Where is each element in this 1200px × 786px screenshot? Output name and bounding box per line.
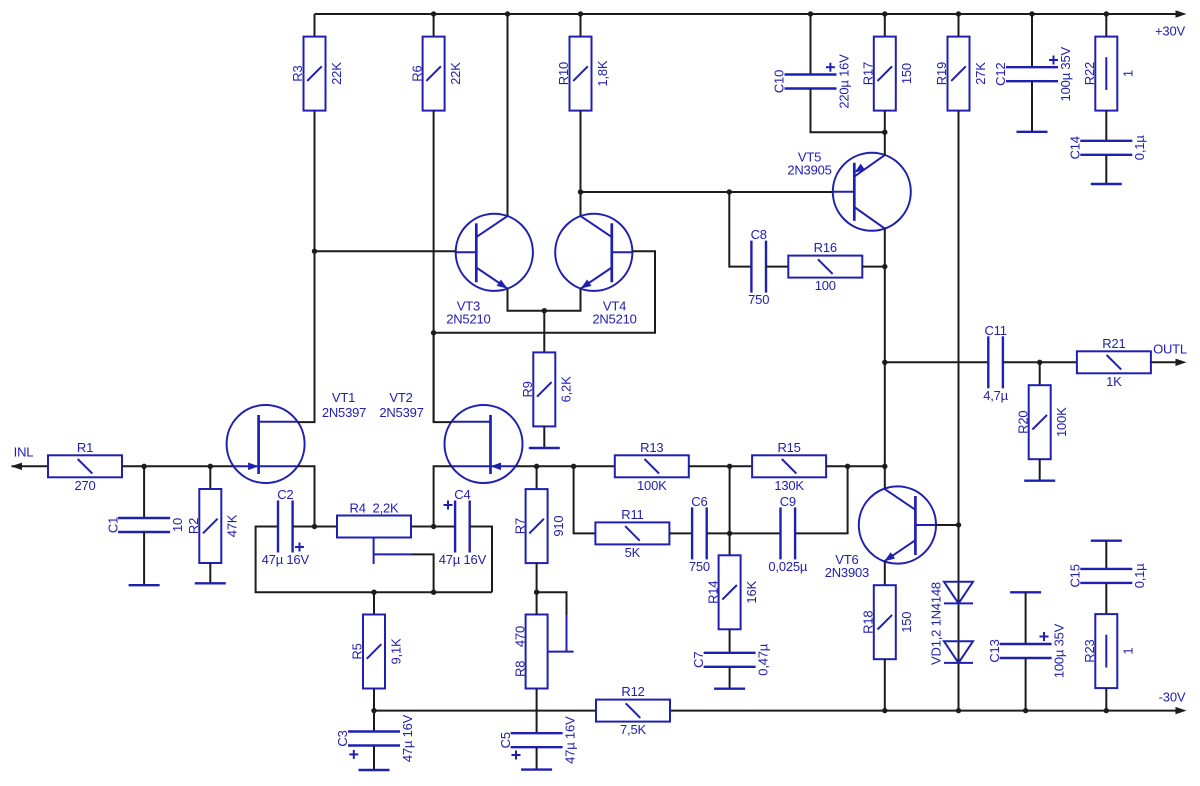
svg-text:R3: R3 — [290, 65, 305, 81]
diode VD1 1N4148 — [944, 582, 973, 604]
wire emitter bus VT3-VT4 — [508, 289, 581, 311]
svg-text:2N3903: 2N3903 — [825, 565, 869, 580]
junction R16 — [882, 264, 887, 269]
resistor R1 270 — [48, 440, 122, 493]
junction emitters / R9 — [542, 308, 547, 313]
terminator bar under C7 — [714, 688, 745, 690]
svg-text:C11: C11 — [984, 323, 1006, 338]
resistor R18 150 — [861, 585, 915, 659]
svg-text:0,025µ: 0,025µ — [768, 559, 808, 574]
junction rail/R22 — [1104, 11, 1109, 16]
wire VT1 drain to R3/VT3-base — [298, 111, 315, 422]
svg-text:R4 2,2K: R4 2,2K — [350, 501, 400, 516]
resistor R10 1,8K — [556, 37, 610, 111]
svg-text:R13: R13 — [640, 440, 663, 455]
junction rail/C12 — [1029, 11, 1034, 16]
svg-text:R15: R15 — [777, 440, 800, 455]
wire VT6 emitter to R18 — [884, 562, 886, 586]
wire C8 to R16 — [766, 266, 788, 268]
svg-text:C2: C2 — [277, 487, 293, 502]
wire C2 left loop and bias bottom wire — [256, 527, 492, 593]
wire C6 to C9 — [707, 532, 780, 534]
wire R8 to C5 — [536, 688, 538, 733]
svg-text:R2: R2 — [186, 518, 201, 534]
svg-text:2N5210: 2N5210 — [446, 312, 490, 327]
resistor R11 5K — [595, 507, 669, 560]
wire R4 tap down — [412, 554, 434, 592]
label VD1,2 1N4148 — [929, 582, 944, 665]
wire rail to C3 — [373, 711, 375, 732]
svg-text:C9: C9 — [780, 494, 796, 509]
junction VT2 source node — [431, 524, 436, 529]
svg-text:R5: R5 — [350, 643, 365, 659]
capacitor C14 0,1µ — [1068, 135, 1148, 160]
wire VT4 base loop — [434, 251, 655, 333]
svg-text:7,5K: 7,5K — [620, 722, 646, 737]
resistor R21 1K — [1077, 336, 1151, 389]
wire C9 up to R15 right — [796, 466, 848, 533]
junction rail/C13 — [1023, 708, 1028, 713]
svg-text:R12: R12 — [621, 684, 644, 699]
svg-text:R6: R6 — [409, 65, 424, 81]
wire R1 to VT1 gate — [122, 465, 233, 467]
wire to R9 — [543, 311, 545, 353]
junction C9 riser — [845, 464, 850, 469]
node C1 junction — [141, 464, 146, 469]
svg-text:C10: C10 — [772, 70, 787, 93]
terminator bar under R20 — [1024, 480, 1055, 482]
wire R23 to -30V rail — [1105, 688, 1107, 711]
wire rail to R10 — [580, 14, 582, 37]
svg-text:270: 270 — [74, 478, 95, 493]
wire C2 to R4 — [293, 526, 337, 528]
resistor R8 470 — [512, 615, 547, 689]
resistor R20 100K — [1015, 385, 1069, 459]
resistor R4 2,2K — [337, 501, 411, 538]
wire VT5 collector to VT6 collector — [884, 228, 886, 488]
resistor R5 9,1K — [350, 615, 404, 689]
capacitor C2 47µ 16V — [262, 487, 310, 567]
capacitor C12 100µ 35V — [993, 47, 1073, 102]
svg-text:C12: C12 — [993, 63, 1008, 86]
svg-text:1: 1 — [1121, 648, 1136, 655]
net label -30V — [1159, 690, 1186, 705]
svg-text:0,1µ: 0,1µ — [1132, 563, 1147, 588]
resistor R6 22K — [409, 37, 463, 111]
wire R15 to VT6 collector node — [826, 465, 885, 467]
junction R5 — [371, 590, 376, 595]
svg-text:VT1: VT1 — [332, 390, 355, 405]
svg-text:C13: C13 — [987, 639, 1002, 662]
wire VT1 source down — [298, 466, 315, 526]
svg-text:R22: R22 — [1082, 62, 1097, 85]
wire VT6 base — [936, 524, 959, 526]
wire C12 to terminator — [1031, 82, 1033, 132]
terminator bar above C13 — [1010, 591, 1041, 593]
transistor VT5 2N3905 — [787, 150, 910, 231]
wire R9 to terminator — [543, 426, 545, 448]
svg-text:R21: R21 — [1102, 336, 1125, 351]
svg-text:2N3905: 2N3905 — [787, 163, 831, 178]
wire VT3 base — [315, 250, 456, 252]
resistor R19 27K — [934, 37, 988, 111]
svg-text:220µ 16V: 220µ 16V — [836, 54, 851, 109]
resistor R22 1 — [1082, 37, 1136, 111]
svg-text:5K: 5K — [625, 545, 641, 560]
junction VT1 source node — [312, 524, 317, 529]
wire C14 to terminator — [1105, 155, 1107, 184]
wire R5 to -30V rail — [373, 689, 375, 711]
junction R7 top — [534, 464, 539, 469]
transistor VT6 2N3903 — [825, 486, 936, 580]
wire VT2 drain to R6 line — [434, 333, 452, 422]
junction R11 branch — [571, 464, 576, 469]
node R2 junction — [208, 464, 213, 469]
junction rail/R19 — [956, 11, 961, 16]
svg-text:R20: R20 — [1015, 411, 1030, 434]
capacitor C7 0,47µ — [691, 643, 771, 676]
wire down to R14 — [729, 466, 731, 555]
svg-text:INL: INL — [14, 445, 34, 460]
resistor R15 130K — [752, 440, 826, 493]
resistor R2 47K — [186, 489, 240, 563]
resistor R17 150 — [861, 37, 915, 111]
svg-text:6,2K: 6,2K — [559, 376, 574, 402]
svg-text:R10: R10 — [556, 62, 571, 85]
svg-text:9,1K: 9,1K — [388, 638, 403, 664]
svg-text:27K: 27K — [973, 62, 988, 85]
svg-text:47µ 16V: 47µ 16V — [439, 552, 487, 567]
wire R18 to -30V rail — [884, 658, 886, 710]
svg-text:R7: R7 — [512, 518, 527, 534]
capacitor C5 47µ 16V — [498, 716, 578, 764]
svg-text:150: 150 — [899, 63, 914, 84]
wire rail to R19 — [958, 14, 960, 37]
capacitor C9 0,025µ — [768, 494, 808, 574]
junction R3 line / VT3 base — [312, 249, 317, 254]
trimmer tap of R4 — [374, 538, 412, 565]
svg-text:C7: C7 — [691, 652, 706, 668]
svg-text:C1: C1 — [105, 517, 120, 533]
svg-text:C5: C5 — [498, 732, 513, 748]
junction R13/R15/R14 — [727, 464, 732, 469]
svg-text:R8 470: R8 470 — [512, 626, 527, 677]
wire R13 to R15 — [689, 465, 752, 467]
resistor R13 100K — [615, 440, 689, 493]
wire R20 to terminator — [1039, 459, 1041, 481]
transistor VT3 2N5210 — [446, 214, 533, 327]
svg-text:R1: R1 — [77, 440, 93, 455]
net label INL — [14, 445, 34, 460]
junction R7/R8/tap — [534, 590, 539, 595]
svg-text:10: 10 — [170, 518, 185, 532]
junction VT4 collector / VT5 base wire — [578, 189, 583, 194]
wire rail to C12 — [1031, 14, 1033, 67]
wire C10 to VT5 emitter node — [811, 89, 885, 133]
capacitor C8 750 — [748, 227, 769, 307]
resistor R14 16K — [705, 555, 759, 629]
svg-text:R9: R9 — [520, 381, 535, 397]
junction rail/R10 — [578, 11, 583, 16]
wire C7 to terminator — [729, 667, 731, 689]
svg-text:0,1µ: 0,1µ — [1132, 135, 1147, 160]
wire rail to R3 — [314, 14, 316, 37]
capacitor C13 100µ 35V — [987, 623, 1067, 678]
svg-text:R16: R16 — [814, 240, 837, 255]
transistor VT1 2N5397 JFET — [227, 405, 305, 483]
svg-text:C6: C6 — [691, 494, 707, 509]
wire R7 to R8 — [536, 562, 538, 592]
junction rail/R6 — [431, 11, 436, 16]
svg-text:100µ 35V: 100µ 35V — [1058, 47, 1073, 102]
svg-text:2N5397: 2N5397 — [322, 405, 366, 420]
svg-text:100: 100 — [815, 278, 836, 293]
wire R4 to C4 — [412, 526, 456, 528]
svg-text:4,7µ: 4,7µ — [983, 388, 1008, 403]
wire C3 to terminator — [373, 746, 375, 770]
junction VT4 base / R6 line — [431, 330, 436, 335]
label VT1 — [322, 390, 366, 420]
wire C1 to terminator — [143, 532, 145, 585]
junction rail/C10 — [808, 11, 813, 16]
wire C13 to -30V rail — [1025, 658, 1027, 710]
wire rail to R6 — [433, 14, 435, 37]
terminator bar under R9 — [529, 447, 560, 449]
junction rail/R18 — [882, 708, 887, 713]
svg-text:47K: 47K — [225, 514, 240, 537]
junction C10/R17 — [882, 130, 887, 135]
svg-text:C4: C4 — [454, 487, 470, 502]
svg-text:150: 150 — [899, 612, 914, 633]
svg-text:C15: C15 — [1068, 564, 1083, 587]
svg-text:R19: R19 — [934, 62, 949, 85]
svg-text:R11: R11 — [621, 507, 643, 522]
wire into R8 — [536, 592, 538, 614]
wire down to C8 — [729, 192, 751, 267]
svg-text:47µ 16V: 47µ 16V — [562, 716, 577, 764]
svg-text:C3: C3 — [335, 730, 350, 746]
junction rail/VT3 collector — [505, 11, 510, 16]
junction C8 branch — [727, 189, 732, 194]
capacitor C3 47µ 16V — [335, 714, 415, 762]
wire R17 to VT5 emitter — [884, 111, 886, 156]
svg-text:910: 910 — [551, 516, 566, 537]
wire rail to C10 — [810, 14, 812, 75]
junction R4 tap / C4 loop — [431, 590, 436, 595]
junction output tap — [882, 360, 887, 365]
wire R10 to VT4 collector — [580, 111, 582, 216]
svg-text:22K: 22K — [329, 62, 344, 85]
terminator bar under C5 — [521, 768, 552, 770]
capacitor C10 220µ 16V — [772, 54, 852, 109]
terminator bar under C1 — [129, 584, 160, 586]
wire R2 to terminator — [209, 563, 211, 583]
svg-text:-30V: -30V — [1159, 690, 1186, 705]
wire C11 to R21 — [1003, 361, 1077, 363]
svg-text:1,8K: 1,8K — [595, 60, 610, 86]
wire to R8 tap — [537, 592, 567, 615]
terminator bar under C3 — [359, 769, 390, 771]
junction R20 — [1037, 360, 1042, 365]
terminator bar under C14 — [1091, 183, 1122, 185]
svg-text:100K: 100K — [637, 478, 667, 493]
svg-text:2N5210: 2N5210 — [592, 312, 636, 327]
svg-text:VT2: VT2 — [389, 390, 412, 405]
svg-text:1: 1 — [1121, 70, 1136, 77]
svg-text:130K: 130K — [774, 478, 804, 493]
wire C15 to R23 — [1105, 583, 1107, 614]
wire to C1 — [143, 466, 145, 518]
wire to R2 — [209, 466, 211, 489]
svg-text:1K: 1K — [1106, 374, 1122, 389]
wire terminator to C15 — [1105, 541, 1107, 569]
junction rail/R23 — [1104, 708, 1109, 713]
junction rail/R17 — [882, 11, 887, 16]
resistor R16 100 — [788, 240, 862, 293]
svg-text:47µ 16V: 47µ 16V — [262, 552, 310, 567]
resistor R9 6,2K — [520, 352, 574, 426]
svg-text:100K: 100K — [1054, 407, 1069, 437]
svg-text:OUTL: OUTL — [1153, 342, 1187, 357]
wire terminator to C13 — [1025, 592, 1027, 644]
wire VT2 gate to R13 — [516, 465, 615, 467]
net label OUTL — [1153, 342, 1187, 357]
resistor R23 1 — [1082, 614, 1136, 688]
svg-text:2N5397: 2N5397 — [379, 405, 423, 420]
diode VD2 1N4148 — [944, 641, 973, 663]
svg-text:+30V: +30V — [1155, 24, 1185, 39]
capacitor C6 750 — [689, 494, 710, 574]
junction R14 column — [727, 531, 732, 536]
wire VT2 source down — [434, 466, 452, 526]
terminator bar under R2 — [195, 582, 226, 584]
capacitor C15 0,1µ — [1068, 563, 1148, 588]
svg-text:22K: 22K — [448, 62, 463, 85]
wire output to C11 — [885, 361, 989, 363]
net label +30V — [1155, 24, 1185, 39]
resistor R3 22K — [290, 37, 344, 111]
wire to R5 — [373, 592, 375, 614]
junction feedback node / VT6 collector — [882, 464, 887, 469]
wire branch to R11 — [574, 466, 596, 533]
capacitor C11 4,7µ — [983, 323, 1008, 403]
svg-text:R17: R17 — [861, 62, 876, 85]
terminator bar under C12 — [1017, 131, 1048, 133]
-30V power rail wire — [374, 707, 1187, 714]
capacitor C4 47µ 16V — [439, 487, 487, 567]
transistor VT4 2N5210 — [555, 214, 636, 327]
wire R14 to C7 — [729, 629, 731, 653]
wire C5 to terminator — [536, 748, 538, 770]
svg-text:R23: R23 — [1082, 639, 1097, 662]
resistor R7 910 — [512, 489, 566, 563]
wire VT2 gate node to R7 — [536, 466, 538, 489]
svg-text:750: 750 — [689, 559, 710, 574]
transistor VT2 2N5397 JFET — [445, 405, 523, 483]
wire R6 to VT2 drain — [433, 111, 435, 422]
output OUTL wire with arrow — [1151, 359, 1186, 366]
svg-text:100µ 35V: 100µ 35V — [1051, 623, 1066, 678]
svg-text:VD1,2 1N4148: VD1,2 1N4148 — [929, 582, 944, 665]
svg-text:C14: C14 — [1068, 136, 1083, 159]
junction rail/R5/C3 — [371, 708, 376, 713]
wire C4 right loop — [470, 527, 492, 593]
wire rail to R22 — [1105, 14, 1107, 37]
wire R16 to VT5 collector line — [862, 266, 885, 268]
svg-text:47µ 16V: 47µ 16V — [400, 714, 415, 762]
wire VT4 collector to VT5 base — [581, 191, 834, 193]
wire R19 down through diodes to -30V rail — [958, 111, 960, 711]
input INL wire with arrow — [11, 463, 48, 470]
svg-text:R14: R14 — [705, 581, 720, 604]
wire to R20 — [1039, 362, 1041, 385]
svg-text:16K: 16K — [744, 581, 759, 604]
+30V power rail wire — [315, 10, 1187, 17]
svg-text:750: 750 — [748, 292, 769, 307]
svg-text:R18: R18 — [861, 611, 876, 634]
capacitor C1 10 — [105, 517, 185, 533]
trimmer tap of R8 — [548, 615, 574, 651]
junction rail/VD2 — [956, 708, 961, 713]
svg-text:0,47µ: 0,47µ — [755, 643, 770, 676]
svg-text:C8: C8 — [751, 227, 767, 242]
label VT2 — [379, 390, 423, 420]
wire rail to VT3 collector — [507, 14, 509, 216]
wire R11 to C6 — [670, 532, 692, 534]
terminator bar above C15 — [1091, 540, 1122, 542]
junction VT6 base / R19 line — [956, 522, 961, 527]
wire rail to R17 — [884, 14, 886, 37]
wire R22 to C14 — [1105, 111, 1107, 141]
resistor R12 7,5K — [596, 684, 670, 737]
